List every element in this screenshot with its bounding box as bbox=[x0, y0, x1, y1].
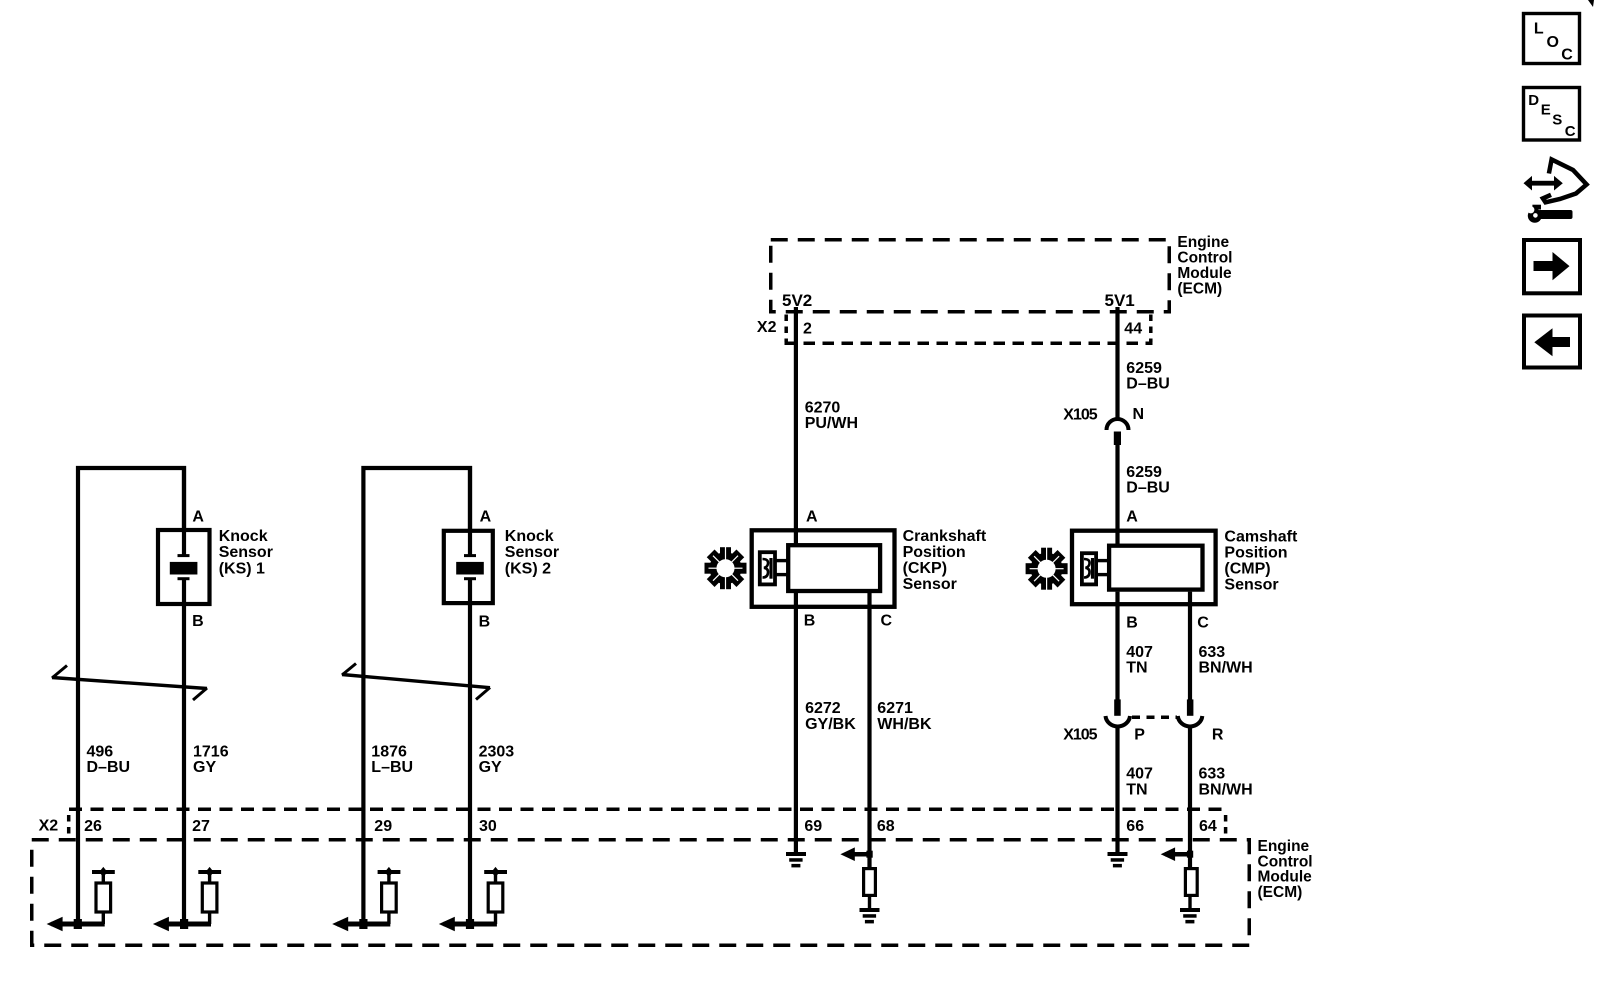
wire CMP B upper bbox=[1115, 592, 1119, 700]
svg-text:Sensor: Sensor bbox=[1224, 577, 1278, 594]
arrow off-page pin 68 bbox=[840, 847, 872, 861]
internal resistor + arrow pin 30 bbox=[439, 867, 507, 931]
svg-text:TN: TN bbox=[1126, 660, 1147, 677]
internal resistor + arrow pin 29 bbox=[332, 867, 400, 931]
wire label 496 D-BU bbox=[87, 744, 131, 777]
svg-text:6270: 6270 bbox=[805, 399, 841, 416]
svg-text:E: E bbox=[1541, 101, 1551, 118]
icon button DESC bbox=[1524, 88, 1580, 141]
svg-text:1716: 1716 bbox=[193, 744, 229, 761]
svg-text:B: B bbox=[192, 613, 204, 630]
wire label 6259 D-BU upper bbox=[1126, 360, 1170, 392]
svg-text:P: P bbox=[1134, 727, 1145, 744]
connector row X2 top (dotted) bbox=[785, 315, 1153, 344]
CKP inner box bbox=[788, 545, 880, 591]
svg-text:X2: X2 bbox=[757, 319, 777, 336]
svg-text:1876: 1876 bbox=[371, 744, 407, 761]
svg-text:GY: GY bbox=[479, 759, 502, 776]
svg-text:2: 2 bbox=[803, 321, 812, 338]
svg-text:(ECM): (ECM) bbox=[1258, 884, 1303, 901]
svg-text:68: 68 bbox=[877, 818, 895, 835]
svg-text:6272: 6272 bbox=[805, 700, 841, 717]
wire CKP B to ground bbox=[794, 592, 798, 853]
svg-text:(KS) 2: (KS) 2 bbox=[505, 560, 551, 577]
svg-text:27: 27 bbox=[192, 818, 210, 835]
svg-text:69: 69 bbox=[804, 818, 822, 835]
svg-text:D–BU: D–BU bbox=[87, 759, 131, 776]
svg-text:(CKP): (CKP) bbox=[903, 560, 947, 577]
wire label 633 BN/WH upper bbox=[1199, 644, 1253, 676]
label Engine Control Module (ECM) bottom bbox=[1258, 838, 1313, 901]
label Camshaft Position (CMP) Sensor bbox=[1224, 529, 1298, 594]
svg-text:L–BU: L–BU bbox=[371, 759, 413, 776]
CKP pickup stubs bbox=[776, 559, 789, 562]
resistor pin 68 bbox=[864, 869, 876, 896]
svg-text:633: 633 bbox=[1199, 766, 1226, 783]
ground symbol pin 64 bbox=[1180, 908, 1200, 923]
camshaft position CMP sensor outer box bbox=[1072, 531, 1216, 605]
wire label 6259 D-BU lower bbox=[1126, 464, 1170, 496]
wire resistor 64 to ground bbox=[1188, 895, 1191, 909]
icon button forward arrow bbox=[1524, 240, 1580, 293]
label Engine Control Module (ECM) top bbox=[1177, 234, 1232, 298]
svg-text:6271: 6271 bbox=[877, 700, 913, 717]
svg-text:TN: TN bbox=[1126, 782, 1147, 799]
wire label 2303 GY bbox=[479, 744, 515, 777]
label Crankshaft Position (CKP) Sensor bbox=[903, 528, 987, 593]
svg-text:A: A bbox=[806, 509, 818, 526]
wire X105 N to CMP A bbox=[1115, 444, 1119, 546]
svg-text:Crankshaft: Crankshaft bbox=[903, 528, 987, 545]
svg-text:66: 66 bbox=[1126, 818, 1144, 835]
svg-text:26: 26 bbox=[84, 818, 102, 835]
icon service-info tool (double arrow, outline arrow, wrench) bbox=[1524, 160, 1587, 223]
svg-text:Knock: Knock bbox=[505, 528, 554, 545]
wire label 6270 PU/WH bbox=[805, 399, 858, 432]
svg-text:D–BU: D–BU bbox=[1126, 376, 1170, 393]
arrow off-page pin 64 bbox=[1161, 847, 1194, 861]
svg-text:496: 496 bbox=[87, 744, 114, 761]
wire label 633 BN/WH lower bbox=[1199, 766, 1253, 799]
wire resistor 68 to ground bbox=[868, 895, 871, 909]
svg-text:Position: Position bbox=[903, 544, 966, 561]
svg-text:C: C bbox=[1565, 123, 1576, 140]
svg-text:Control: Control bbox=[1177, 250, 1232, 267]
svg-text:X105: X105 bbox=[1063, 407, 1097, 424]
CMP pickup coil box bbox=[1082, 553, 1096, 584]
icon button LOC bbox=[1524, 14, 1580, 64]
wire label 1716 GY bbox=[193, 744, 229, 777]
svg-text:Knock: Knock bbox=[219, 528, 268, 545]
wire label 1876 L-BU bbox=[371, 744, 413, 777]
svg-text:D–BU: D–BU bbox=[1126, 479, 1170, 496]
crankshaft position CKP sensor outer box bbox=[752, 530, 895, 607]
twisted pair marker KS1 bbox=[52, 666, 207, 701]
KS1 piezo element bbox=[170, 556, 198, 579]
ground symbol pin 66 bbox=[1108, 852, 1128, 867]
svg-text:WH/BK: WH/BK bbox=[877, 716, 932, 733]
ECM top dashed box bbox=[771, 240, 1170, 312]
internal resistor + arrow pin 26 bbox=[47, 867, 115, 931]
svg-text:Sensor: Sensor bbox=[505, 544, 559, 561]
svg-text:44: 44 bbox=[1124, 321, 1142, 338]
svg-text:C: C bbox=[881, 613, 893, 630]
svg-text:GY: GY bbox=[193, 759, 216, 776]
CMP inner box bbox=[1109, 546, 1202, 590]
wire KS1 B bbox=[182, 580, 186, 926]
gear icon CKP bbox=[705, 547, 747, 590]
svg-text:A: A bbox=[192, 509, 204, 526]
wire KS2 A into box bbox=[468, 466, 472, 555]
svg-text:X105: X105 bbox=[1063, 727, 1097, 744]
svg-text:B: B bbox=[804, 613, 816, 630]
KS2 piezo element bbox=[456, 556, 484, 579]
svg-text:B: B bbox=[479, 614, 491, 631]
svg-text:29: 29 bbox=[374, 818, 392, 835]
svg-text:A: A bbox=[1126, 509, 1138, 526]
connector row X2 bottom (dotted) bbox=[69, 809, 1226, 836]
label Knock Sensor (KS) 2 bbox=[505, 528, 559, 577]
wire label 407 TN lower bbox=[1126, 766, 1153, 799]
svg-text:R: R bbox=[1212, 727, 1224, 744]
wire label 407 TN upper bbox=[1126, 644, 1153, 676]
knock sensor KS1 box bbox=[158, 530, 210, 604]
inline connector X105 N (arc + plug) bbox=[1107, 419, 1129, 445]
svg-text:L: L bbox=[1534, 21, 1544, 38]
CKP pickup coil box bbox=[760, 552, 775, 584]
svg-text:X2: X2 bbox=[39, 818, 59, 835]
svg-text:BN/WH: BN/WH bbox=[1199, 782, 1253, 799]
wire KS1 A into box bbox=[182, 466, 186, 555]
inline connector X105 R (plug + cup) bbox=[1178, 699, 1203, 726]
svg-text:C: C bbox=[1561, 47, 1573, 64]
wire label 6271 WH/BK bbox=[877, 700, 932, 733]
inline connector X105 P (plug + cup) bbox=[1106, 699, 1131, 726]
knock sensor KS2 box bbox=[444, 531, 493, 603]
svg-text:30: 30 bbox=[479, 818, 497, 835]
wire label 6272 GY/BK bbox=[805, 700, 856, 733]
wire CMP B lower to pin 66 bbox=[1115, 727, 1119, 853]
svg-text:Sensor: Sensor bbox=[219, 544, 273, 561]
resistor pin 64 bbox=[1185, 869, 1197, 896]
wire KS2 loop A bbox=[363, 468, 470, 926]
corner tick top-right bbox=[1588, 0, 1594, 7]
svg-text:Position: Position bbox=[1224, 545, 1287, 562]
svg-text:Camshaft: Camshaft bbox=[1224, 529, 1298, 546]
wire CMP C lower to pin 64 bbox=[1188, 727, 1192, 869]
wire 5V2 pin2 to CKP A bbox=[794, 307, 798, 546]
svg-text:407: 407 bbox=[1126, 766, 1153, 783]
wire KS2 B bbox=[468, 580, 472, 926]
svg-text:PU/WH: PU/WH bbox=[805, 415, 858, 432]
wire 5V1 pin44 to X105 N bbox=[1115, 307, 1119, 419]
wire CKP C to pin 68 bbox=[867, 592, 871, 869]
ECM bottom dashed box bbox=[32, 840, 1250, 946]
CMP pickup stubs bbox=[1098, 559, 1111, 562]
icon button back arrow bbox=[1524, 316, 1580, 368]
label Knock Sensor (KS) 1 bbox=[219, 528, 273, 577]
svg-text:A: A bbox=[480, 509, 492, 526]
twisted pair marker KS2 bbox=[342, 664, 490, 700]
dashed link between X105 P and R bbox=[1132, 716, 1177, 720]
svg-text:(CMP): (CMP) bbox=[1224, 561, 1270, 578]
svg-text:O: O bbox=[1547, 34, 1559, 51]
svg-text:BN/WH: BN/WH bbox=[1199, 660, 1253, 677]
svg-text:C: C bbox=[1197, 615, 1209, 632]
svg-text:Sensor: Sensor bbox=[903, 576, 957, 593]
svg-text:N: N bbox=[1133, 406, 1145, 423]
svg-text:64: 64 bbox=[1199, 818, 1217, 835]
svg-text:2303: 2303 bbox=[479, 744, 515, 761]
internal resistor + arrow pin 27 bbox=[153, 867, 221, 931]
svg-text:D: D bbox=[1528, 92, 1539, 109]
wire CMP C upper bbox=[1188, 592, 1192, 700]
ground symbol pin 68 bbox=[860, 908, 880, 923]
wire KS1 loop A bbox=[78, 468, 184, 926]
ground symbol pin 69 bbox=[786, 852, 806, 867]
svg-text:5V1: 5V1 bbox=[1105, 291, 1135, 310]
svg-text:(KS) 1: (KS) 1 bbox=[219, 560, 265, 577]
svg-text:GY/BK: GY/BK bbox=[805, 716, 856, 733]
svg-text:S: S bbox=[1552, 112, 1562, 129]
svg-text:(ECM): (ECM) bbox=[1177, 281, 1222, 298]
gear icon CMP bbox=[1026, 547, 1068, 590]
svg-text:B: B bbox=[1126, 615, 1138, 632]
